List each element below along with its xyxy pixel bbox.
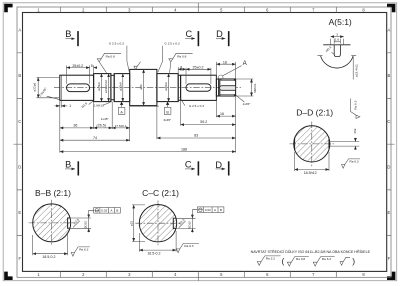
section D-D centerlines bbox=[290, 122, 335, 167]
detail A surface line bbox=[323, 44, 350, 46]
thread end chamfer bbox=[234, 79, 236, 96]
svg-text:16.5-0.2: 16.5-0.2 bbox=[147, 252, 160, 256]
section D-D hatched circle bbox=[294, 126, 330, 162]
corner mark bottom-right bbox=[387, 272, 395, 280]
svg-text:25±0.2: 25±0.2 bbox=[193, 65, 204, 69]
thread dim M20x1 bbox=[236, 79, 254, 96]
roughness Ra 0.8 left journal bbox=[97, 53, 121, 73]
chamfer length dim 1 bbox=[60, 101, 62, 108]
svg-text:F: F bbox=[19, 256, 22, 261]
section B-B centerlines bbox=[29, 200, 75, 246]
svg-text:⌀40: ⌀40 bbox=[139, 84, 143, 90]
svg-text:1: 1 bbox=[69, 104, 71, 108]
svg-text:A: A bbox=[18, 27, 21, 32]
detail A leader bbox=[223, 66, 242, 76]
svg-text:⌀19.4h11: ⌀19.4h11 bbox=[354, 64, 358, 77]
svg-text:1.6: 1.6 bbox=[335, 38, 340, 42]
keyway2 dim 25±0.2 bbox=[210, 68, 212, 84]
svg-text:Ra 3.2: Ra 3.2 bbox=[266, 257, 275, 261]
svg-text:25±0.2: 25±0.2 bbox=[72, 64, 83, 68]
svg-text:0.02: 0.02 bbox=[205, 208, 211, 212]
svg-text:B: B bbox=[18, 73, 21, 78]
svg-text:Ra 6.3: Ra 6.3 bbox=[79, 247, 88, 251]
svg-text:83: 83 bbox=[194, 134, 198, 138]
svg-text:C: C bbox=[18, 119, 21, 124]
svg-text:⌀20k6: ⌀20k6 bbox=[164, 82, 168, 91]
diameter dim ∅20k6 section4 bbox=[168, 74, 170, 102]
datum B frame bbox=[164, 107, 171, 114]
thread minor diameter lines bbox=[220, 81, 236, 95]
roughness Ra 0.8 in parentheses bbox=[287, 257, 309, 267]
C-C keyway depth leader R2.5 bbox=[179, 221, 186, 228]
svg-text:D: D bbox=[387, 165, 390, 170]
svg-text:16: 16 bbox=[220, 112, 224, 116]
detail A chamfer edges bbox=[331, 39, 344, 45]
C-C tolerance frame 0.02 A B bbox=[192, 210, 197, 219]
svg-text:C: C bbox=[387, 119, 390, 124]
svg-text:A(5:1): A(5:1) bbox=[329, 17, 352, 27]
datum B triangle bbox=[166, 102, 169, 105]
keyway1 end gap dim 5 bbox=[94, 67, 97, 69]
fillet note R1.6 bbox=[89, 101, 94, 105]
svg-text:5: 5 bbox=[91, 64, 93, 68]
svg-text:8: 8 bbox=[180, 65, 182, 69]
keyway slot 2 bbox=[186, 84, 211, 91]
extension lines below shaft bbox=[60, 97, 236, 153]
threaded end section 6 bbox=[216, 79, 235, 96]
chamfer edge left end bbox=[60, 75, 62, 100]
D-D slot lines to right bbox=[329, 142, 359, 147]
svg-text:(: ( bbox=[282, 256, 285, 266]
svg-text:D: D bbox=[216, 29, 223, 39]
svg-text:1x45°: 1x45° bbox=[243, 102, 252, 106]
section C-C hatched circle bbox=[139, 205, 176, 242]
svg-text:D: D bbox=[215, 160, 222, 170]
section C-C keyway notch bbox=[173, 218, 176, 228]
svg-text:Ra 0.8: Ra 0.8 bbox=[296, 257, 305, 261]
svg-text:B: B bbox=[220, 208, 222, 212]
D-D slot height dim 4h9 bbox=[354, 138, 356, 142]
svg-text:Ra 6.3: Ra 6.3 bbox=[322, 257, 331, 261]
D-D roughness Ra 6.3 rotated bbox=[351, 99, 360, 119]
diameter dim ∅40 collar bbox=[143, 69, 145, 105]
chamfer note 0.5x45 left end bbox=[47, 96, 61, 100]
svg-text:B: B bbox=[65, 159, 71, 169]
svg-text:5D10: 5D10 bbox=[188, 221, 192, 229]
dim 36 bbox=[60, 127, 94, 129]
collar width construction line bbox=[130, 105, 159, 108]
svg-text:⌀22p6: ⌀22p6 bbox=[33, 83, 37, 92]
svg-text:Ra 0.8: Ra 0.8 bbox=[177, 54, 186, 58]
general roughness Ra 3.2 bbox=[257, 256, 280, 266]
diameter dim left end ∅22p6 bbox=[37, 77, 61, 97]
svg-text:NAVRTAT STŘEDICÍ DŮLKY ISO 641: NAVRTAT STŘEDICÍ DŮLKY ISO 6411–B2,5/8 N… bbox=[251, 249, 371, 254]
dim 17.5±0.1 bbox=[112, 127, 130, 129]
right band ticks bbox=[387, 53, 395, 236]
detail A dim 3 bbox=[331, 36, 344, 38]
dim 74 bbox=[60, 139, 130, 141]
corner mark top-right bbox=[387, 4, 395, 12]
svg-text:3x45°: 3x45° bbox=[163, 118, 172, 122]
svg-text:Ra 6.3: Ra 6.3 bbox=[353, 100, 357, 109]
detail A dim 1.6 bbox=[334, 41, 340, 43]
relief groove at section 4/5 bbox=[178, 74, 180, 102]
svg-text:5D10: 5D10 bbox=[84, 221, 88, 229]
svg-text:Ra 0.8: Ra 0.8 bbox=[106, 54, 115, 58]
left band ticks bbox=[14, 53, 23, 236]
svg-text:B: B bbox=[65, 29, 71, 39]
B-B width dim 18.5-0.2 bbox=[33, 232, 68, 255]
shaft section 1 (left journal with keyway) bbox=[60, 75, 94, 100]
C-C keyway width dim 5D10 bbox=[173, 218, 195, 228]
circlip groove 1.6H13 bbox=[111, 74, 114, 102]
shaft section 4 bbox=[157, 74, 178, 102]
detail A diameter dim ∅19.4h11 bbox=[352, 56, 354, 80]
svg-text:C–C (2:1): C–C (2:1) bbox=[142, 188, 179, 198]
svg-text:18: 18 bbox=[223, 60, 227, 64]
shaft centerline bbox=[54, 87, 241, 89]
thread relief groove bbox=[219, 79, 220, 96]
svg-text:(26.5): (26.5) bbox=[97, 124, 106, 128]
svg-text:74: 74 bbox=[93, 136, 97, 140]
keyway1 dim 25±0.2 bbox=[67, 65, 94, 84]
datum A triangle bbox=[120, 102, 123, 105]
section B-B hatched circle bbox=[33, 204, 71, 242]
B-B keyway width dim 5D10 bbox=[68, 218, 91, 228]
keyway slot 1 bbox=[67, 84, 90, 92]
dim 59.2 bbox=[181, 124, 236, 126]
collar section bbox=[130, 69, 157, 105]
svg-text:⌀22: ⌀22 bbox=[129, 221, 133, 227]
detail A radius note R0.4 bbox=[332, 52, 335, 55]
svg-text:3: 3 bbox=[336, 32, 338, 36]
svg-text:G 2.5 x 0.3: G 2.5 x 0.3 bbox=[109, 42, 124, 46]
dim 188 bbox=[60, 151, 236, 153]
detail A balloon circle bbox=[218, 75, 223, 80]
corner mark top-left bbox=[4, 4, 12, 12]
svg-text:D–D (2:1): D–D (2:1) bbox=[296, 107, 333, 117]
svg-text:1x45°: 1x45° bbox=[101, 117, 110, 121]
svg-text:E: E bbox=[18, 210, 21, 215]
dim (26.5) bbox=[94, 127, 113, 129]
svg-text:188: 188 bbox=[181, 147, 187, 151]
roughness Ra 6.3 in parentheses bbox=[313, 257, 335, 267]
svg-text:E: E bbox=[388, 210, 391, 215]
bottom band ticks bbox=[60, 271, 336, 280]
shaft section 5 (right journal with keyway) bbox=[181, 75, 217, 100]
corner mark bottom-left bbox=[4, 272, 12, 280]
detail A groove profile bbox=[334, 45, 340, 57]
svg-text:Ra 6.3: Ra 6.3 bbox=[184, 244, 193, 248]
svg-text:D: D bbox=[18, 165, 21, 170]
section C-C centerlines bbox=[135, 201, 180, 246]
svg-text:59.2: 59.2 bbox=[200, 120, 207, 124]
top band ticks bbox=[60, 3, 336, 13]
svg-text:36: 36 bbox=[73, 124, 77, 128]
groove position dim 8 bbox=[178, 67, 186, 84]
svg-text:C: C bbox=[185, 29, 192, 39]
slot in threaded end bbox=[220, 86, 236, 91]
svg-text:G 2.5 x 0.3: G 2.5 x 0.3 bbox=[189, 104, 204, 108]
svg-text:4h9: 4h9 bbox=[353, 128, 357, 133]
svg-text:G 2.5 x 0.3: G 2.5 x 0.3 bbox=[164, 42, 179, 46]
thread length dim 18 bbox=[216, 62, 235, 79]
shaft section 2 bbox=[94, 74, 111, 102]
B-B roughness Ra 6.3 bbox=[71, 247, 90, 256]
svg-text:17.5±0.1: 17.5±0.1 bbox=[115, 124, 127, 128]
svg-text:C: C bbox=[185, 159, 192, 169]
basic symbol in parentheses bbox=[340, 257, 350, 265]
C-C diameter dim ∅22 bbox=[132, 205, 145, 242]
roughness Ra 0.8 right journal bbox=[169, 53, 193, 73]
diameter dim ∅19.6h12 groove bbox=[108, 74, 110, 102]
datum A frame bbox=[118, 107, 125, 114]
svg-text:18.5-0.2: 18.5-0.2 bbox=[42, 255, 55, 259]
svg-text:Ra 6.3: Ra 6.3 bbox=[350, 159, 359, 163]
B-B tolerance frame 0.02 A B bbox=[89, 210, 94, 218]
B-B keyway depth leader R2.5 bbox=[73, 221, 80, 228]
svg-text:F: F bbox=[388, 256, 391, 261]
C-C width dim 16.5-0.2 bbox=[139, 231, 176, 252]
roughness mark on collar bbox=[134, 62, 141, 70]
diameter dim ∅20k6 section3 bbox=[122, 74, 124, 102]
dim 16 bbox=[216, 115, 235, 117]
section B-B keyway notch bbox=[68, 218, 71, 228]
svg-text:): ) bbox=[352, 256, 355, 266]
svg-text:1.6H13: 1.6H13 bbox=[94, 104, 104, 108]
C-C roughness Ra 6.3 bbox=[176, 243, 199, 252]
svg-text:⌀19.6h12: ⌀19.6h12 bbox=[104, 80, 108, 93]
svg-text:18.5h12: 18.5h12 bbox=[304, 171, 317, 175]
detail A core arc bbox=[321, 56, 354, 68]
shaft section 3 bbox=[114, 74, 130, 102]
D-D roughness Ra 6.3 bottom bbox=[342, 159, 361, 168]
D-D flats left and right bbox=[295, 138, 329, 151]
D-D width dim 18.5h12 bbox=[295, 152, 329, 171]
svg-text:A: A bbox=[388, 27, 391, 32]
svg-text:B–B (2:1): B–B (2:1) bbox=[35, 188, 71, 198]
dim 83 bbox=[157, 137, 236, 139]
svg-text:B: B bbox=[116, 209, 118, 213]
diameter dim ∅20k6 section2 bbox=[101, 74, 103, 102]
svg-text:⌀20k6: ⌀20k6 bbox=[97, 82, 101, 91]
svg-text:M20x1: M20x1 bbox=[253, 83, 257, 93]
svg-text:⌀20k6: ⌀20k6 bbox=[118, 82, 122, 91]
svg-text:B: B bbox=[388, 73, 391, 78]
svg-text:0.02: 0.02 bbox=[101, 209, 107, 213]
